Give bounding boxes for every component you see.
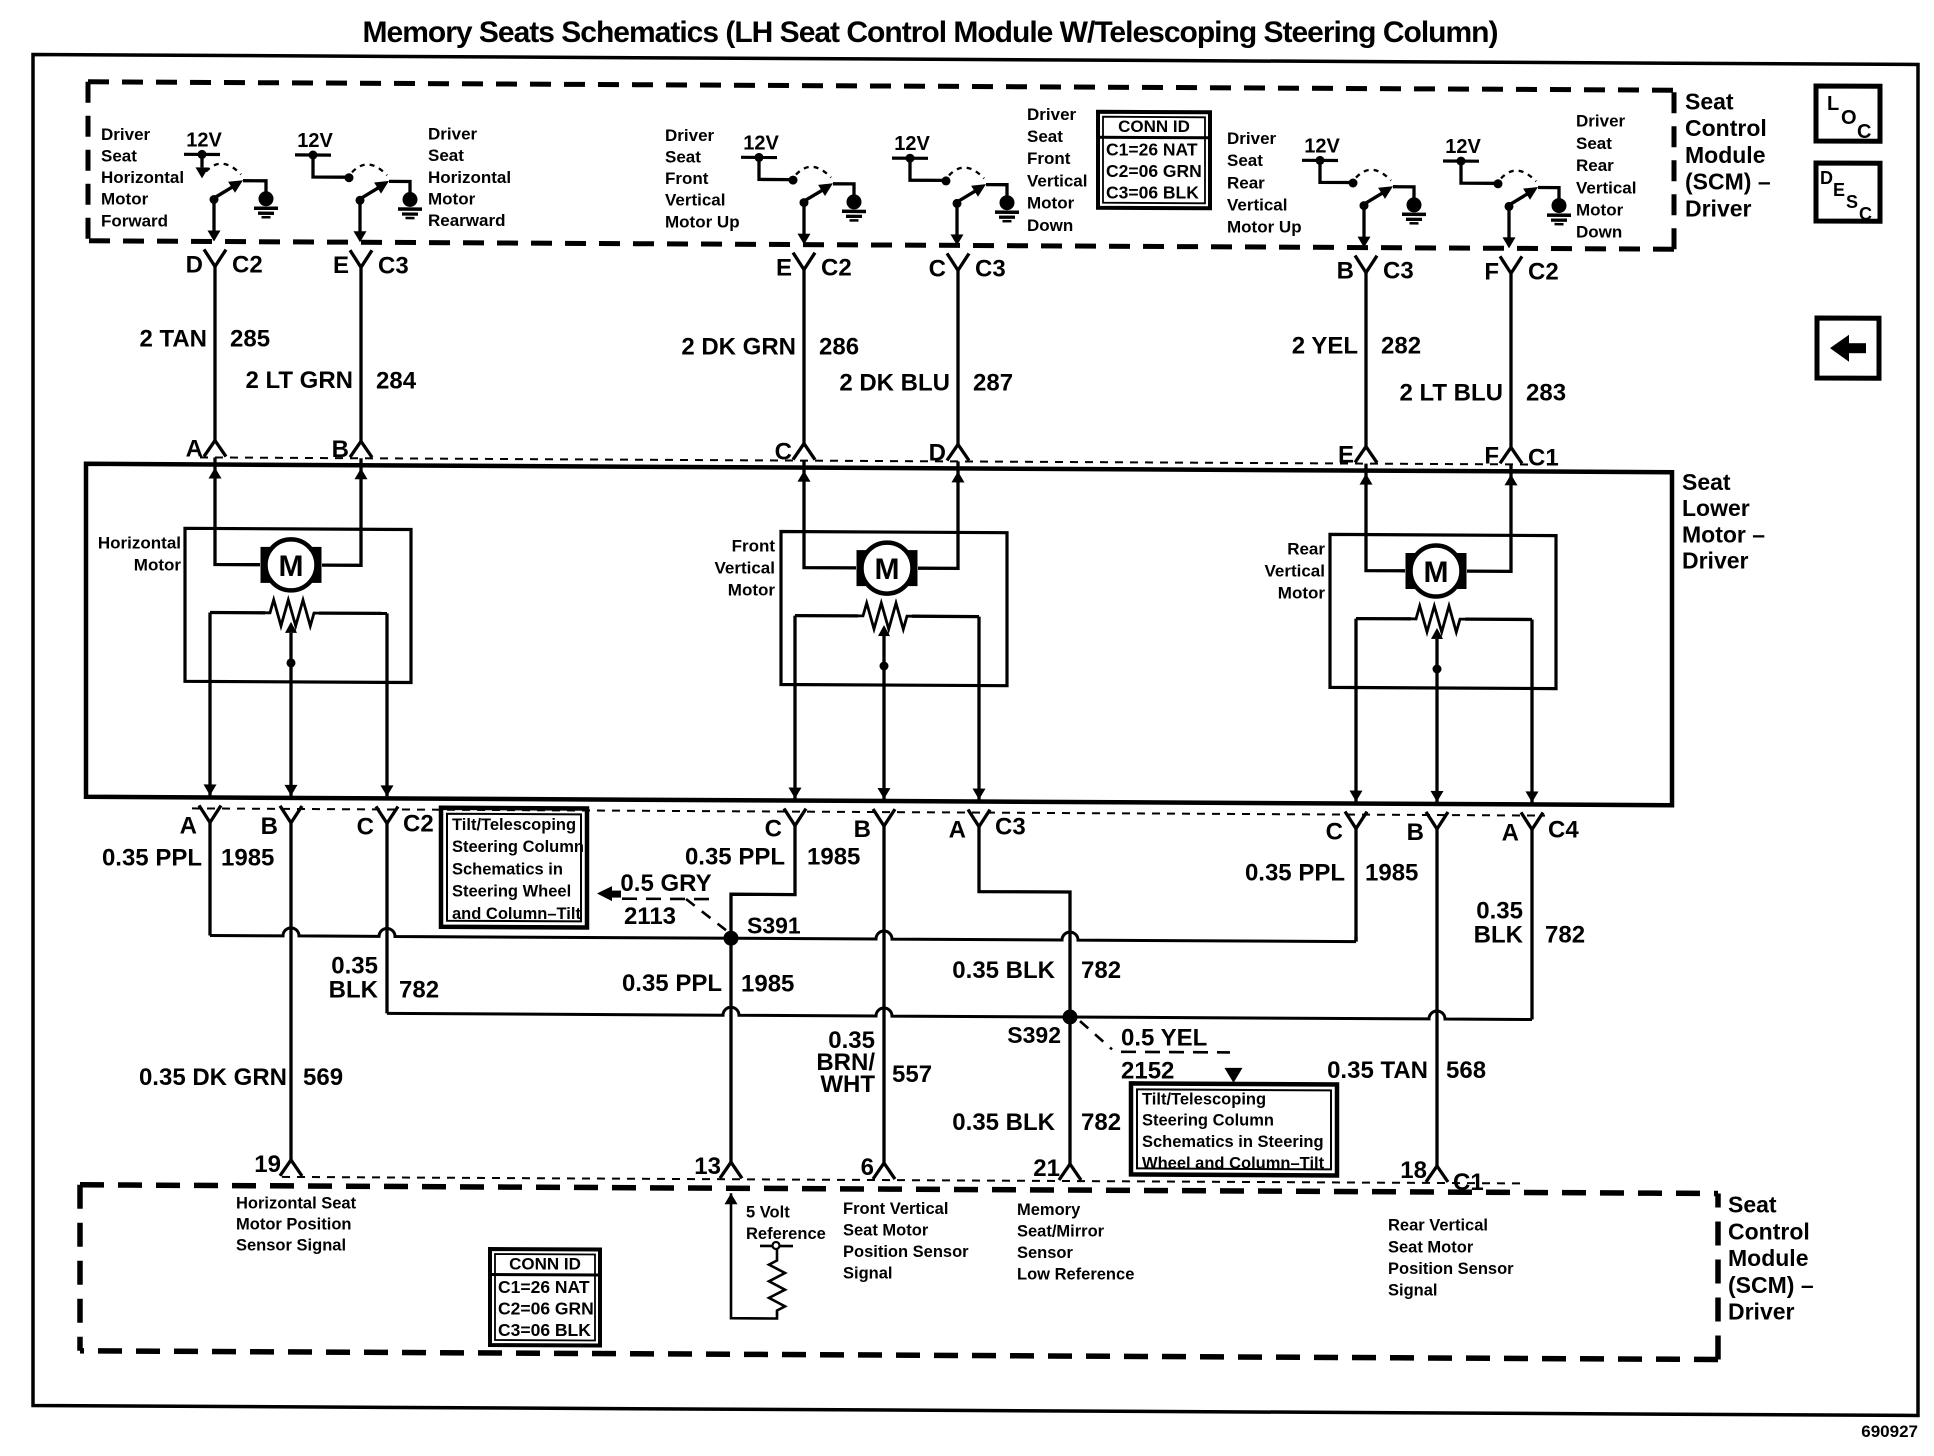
wire 569 0.35 DK GRN (pin B to pin 19) [289,821,292,1161]
svg-text:C: C [929,255,946,282]
svg-text:Driver: Driver [1685,196,1752,222]
svg-text:Position Sensor: Position Sensor [843,1243,969,1261]
svg-text:2152: 2152 [1121,1057,1174,1084]
svg-text:Driver: Driver [101,125,151,144]
svg-text:12V: 12V [186,129,222,151]
potentiometer position sensor (motor Front) [858,603,912,629]
svg-text:C: C [1857,121,1871,143]
switch blade (pivot x=214) [206,164,241,175]
ground (switch at x=957) [986,185,1007,196]
wire 1985 0.35 PPL (pin A to S391) [208,821,211,936]
wire 284 2 LT GRN [359,267,362,441]
svg-text:12V: 12V [1445,136,1481,158]
svg-text:12V: 12V [297,130,333,152]
wire sensor left lead (x=210) [208,613,211,796]
svg-text:285: 285 [230,326,270,353]
pin C (motor box bottom) [1345,812,1356,829]
switch blade (pivot x=360) [352,164,387,175]
svg-text:Front: Front [665,169,709,188]
svg-text:Driver: Driver [665,126,715,145]
wire sensor left lead (x=1356) [1354,619,1357,802]
svg-text:6: 6 [861,1154,874,1181]
svg-text:Motor: Motor [1278,583,1326,602]
svg-text:782: 782 [1081,957,1121,984]
svg-text:Rear: Rear [1287,539,1325,558]
svg-text:Position Sensor: Position Sensor [1388,1260,1514,1278]
reference wire 0.5 GRY 2113 (to steering column schematics) [597,886,612,901]
svg-text:C2=06 GRN: C2=06 GRN [498,1299,594,1319]
svg-text:S: S [1846,192,1858,212]
note box Tilt/Telescoping Steering Column Schematics (left) [441,808,587,928]
svg-text:C2: C2 [232,252,263,279]
ground (switch at x=1364) [1393,187,1414,198]
svg-text:Motor –: Motor – [1682,521,1765,547]
svg-text:0.5 GRY: 0.5 GRY [620,870,711,897]
wire 782 0.35 BLK (motor2 pin A to S392) [979,825,1070,1017]
svg-text:12V: 12V [1304,135,1340,157]
motor Rear Vertical Motor [1330,534,1556,688]
svg-text:Vertical: Vertical [1265,561,1326,580]
svg-text:E: E [1833,180,1845,200]
ground (switch at x=804) [833,184,854,195]
svg-text:F: F [1484,258,1499,285]
svg-text:Module: Module [1685,142,1766,168]
svg-text:Seat: Seat [1682,469,1731,495]
pin A connector C4 (motor box bottom) [1521,812,1532,829]
reference wire 0.5 YEL 2152 (to steering column schematics) [1080,1021,1112,1049]
svg-text:2113: 2113 [624,903,676,930]
svg-text:E: E [333,252,349,279]
navigation back-arrow box [1817,318,1879,378]
motor Front Vertical Motor [781,532,1007,686]
svg-text:C3=06 BLK: C3=06 BLK [498,1320,591,1340]
wire switch output (x=1509) [1507,206,1510,240]
wire motor feed left (x=1366) [1366,464,1405,571]
pin E connector C2 (SCM switch output) [793,253,804,270]
svg-text:2 LT BLU: 2 LT BLU [1399,379,1503,406]
svg-text:S392: S392 [1007,1022,1061,1048]
svg-text:782: 782 [1081,1109,1121,1136]
svg-text:782: 782 [1545,922,1585,949]
svg-text:282: 282 [1381,333,1421,360]
svg-text:0.35: 0.35 [1476,897,1523,924]
svg-text:Vertical: Vertical [665,191,726,210]
svg-text:Seat: Seat [428,146,464,165]
svg-text:Steering Wheel: Steering Wheel [452,883,571,901]
svg-text:Lower: Lower [1682,495,1750,521]
svg-text:Schematics in Steering: Schematics in Steering [1142,1133,1324,1151]
svg-text:Motor Up: Motor Up [665,212,740,231]
wire sensor right lead (x=1532) [1530,620,1533,803]
note box Tilt/Telescoping Steering Column Schematics (right) [1131,1083,1337,1175]
ground (switch at x=360) [389,181,410,192]
svg-text:E: E [776,255,792,282]
svg-text:Front: Front [1027,149,1071,168]
svg-text:1985: 1985 [221,845,274,872]
svg-text:Horizontal: Horizontal [428,168,511,187]
svg-text:and Column–Tilt: and Column–Tilt [452,905,581,923]
svg-text:C3: C3 [1383,258,1414,285]
svg-text:Seat: Seat [1685,88,1734,114]
svg-text:Seat/Mirror: Seat/Mirror [1017,1222,1105,1240]
DESC reference box [1816,163,1880,221]
svg-text:Control: Control [1685,115,1767,141]
pin B (motor box bottom) [1426,812,1437,829]
svg-text:B: B [854,816,871,843]
svg-text:0.35 PPL: 0.35 PPL [622,970,722,997]
motor Horizontal Motor [185,528,411,682]
CONN ID table (SCM bottom connectors) [490,1249,600,1346]
svg-text:(SCM) –: (SCM) – [1685,169,1771,195]
svg-text:C1=26 NAT: C1=26 NAT [1106,140,1198,160]
svg-text:Horizontal: Horizontal [98,533,181,552]
svg-text:B: B [1407,819,1424,846]
svg-text:Down: Down [1576,223,1622,242]
svg-text:C: C [357,813,374,840]
SCM box (Seat Control Module - Driver, bottom) [80,1185,1718,1194]
wire motor feed left (x=215) [215,458,260,565]
svg-text:Vertical: Vertical [1227,196,1288,215]
svg-text:284: 284 [376,367,417,394]
svg-text:Driver: Driver [1027,105,1077,124]
svg-text:Motor: Motor [728,581,776,600]
svg-text:Motor: Motor [101,190,149,209]
potentiometer position sensor (motor Rear) [1411,606,1465,632]
svg-text:2 LT GRN: 2 LT GRN [245,367,353,394]
wire 782 0.35 BLK (motor3 pin A to S392 line) [1530,828,1533,1020]
svg-text:2 DK BLU: 2 DK BLU [839,369,950,396]
svg-text:B: B [1337,258,1354,285]
svg-text:12V: 12V [743,132,779,154]
pin C (motor box bottom) [784,809,795,826]
svg-text:0.35 DK GRN: 0.35 DK GRN [139,1064,287,1091]
svg-text:A: A [949,817,966,844]
svg-text:0.35 PPL: 0.35 PPL [1245,860,1345,887]
svg-text:Vertical: Vertical [1576,178,1637,197]
svg-text:12V: 12V [894,133,930,155]
svg-text:0.35: 0.35 [331,952,378,979]
svg-text:Steering Column: Steering Column [452,838,584,856]
wire switch output (x=1364) [1362,206,1365,240]
svg-text:Motor: Motor [1576,201,1624,220]
svg-text:569: 569 [303,1064,343,1091]
svg-text:0.35 TAN: 0.35 TAN [1327,1057,1428,1084]
svg-text:283: 283 [1526,380,1566,407]
svg-text:Rear: Rear [1227,173,1265,192]
switch blade (pivot x=957) [949,168,984,179]
svg-text:Motor: Motor [1027,194,1075,213]
svg-text:Schematics in: Schematics in [452,860,563,878]
resistor 5 volt reference network [725,1193,738,1204]
svg-text:C2: C2 [1528,259,1559,286]
wire sensor left lead (x=795) [793,616,796,799]
svg-text:Driver: Driver [1576,112,1626,131]
wire sensor right lead (x=387) [385,613,388,796]
connector row (thin dashed, motor outputs) [192,808,1545,815]
svg-text:0.35 BLK: 0.35 BLK [952,1109,1055,1136]
svg-text:D: D [186,251,203,278]
svg-text:19: 19 [254,1151,281,1178]
wire 1985 0.35 PPL (S391 to pin 13) [729,938,732,1163]
svg-text:C1=26 NAT: C1=26 NAT [498,1277,590,1297]
connector row (thin dashed, SCM bottom) [282,1177,1520,1184]
svg-text:C1: C1 [1453,1169,1484,1196]
wire 782 0.35 BLK (pin C to S392 line) [385,821,388,1013]
wire 286 2 DK GRN [802,270,805,444]
switch blade (pivot x=1364) [1356,170,1391,181]
svg-text:Rear: Rear [1576,156,1614,175]
wire 1985 0.35 PPL (motor3 pin C to S391 line) [1354,827,1357,942]
svg-text:D: D [1820,168,1833,188]
svg-text:C3: C3 [995,814,1026,841]
pin B connector C3 (SCM switch output) [1355,256,1366,273]
wire switch output (x=957) [955,203,958,237]
svg-text:21: 21 [1033,1155,1060,1182]
pin E connector C3 (SCM switch output) [350,250,361,267]
svg-text:557: 557 [892,1061,932,1088]
svg-text:2 TAN: 2 TAN [139,326,207,353]
svg-text:Driver: Driver [1682,548,1749,574]
svg-text:B: B [261,813,278,840]
svg-text:286: 286 [819,334,859,361]
svg-text:Seat: Seat [1576,134,1612,153]
svg-text:Seat: Seat [1227,151,1263,170]
ground (switch at x=1509) [1538,188,1559,199]
wire 557 0.35 BRN/WHT (motor2 pin B to pin 6) [882,824,885,1164]
wire 285 2 TAN [213,267,216,441]
pin C connector C3 (SCM switch output) [947,253,958,270]
svg-text:Wheel and Column–Tilt: Wheel and Column–Tilt [1142,1154,1325,1172]
svg-text:Horizontal: Horizontal [101,168,184,187]
wire motor feed right (x=1511) [1467,464,1511,571]
svg-text:Low Reference: Low Reference [1017,1266,1134,1284]
pin A connector C3 (motor box bottom) [968,810,979,827]
svg-text:Memory Seats Schematics (LH Se: Memory Seats Schematics (LH Seat Control… [363,16,1498,49]
svg-text:Signal: Signal [843,1265,893,1283]
wire motor feed right (x=361) [322,458,361,565]
svg-text:O: O [1841,107,1857,129]
svg-text:0.35 PPL: 0.35 PPL [685,844,785,871]
svg-text:Vertical: Vertical [1027,171,1088,190]
svg-text:Sensor: Sensor [1017,1244,1074,1262]
svg-text:C2=06 GRN: C2=06 GRN [1106,161,1202,181]
svg-text:0.35 BLK: 0.35 BLK [952,957,1055,984]
svg-text:Memory: Memory [1017,1201,1081,1219]
wire 287 2 DK BLU [956,270,959,444]
svg-text:(SCM) –: (SCM) – [1728,1272,1814,1298]
wire motor feed right (x=958) [918,461,958,568]
svg-text:L: L [1827,93,1839,115]
svg-text:Motor: Motor [134,555,182,574]
CONN ID table (switch connectors) [1098,112,1210,209]
svg-text:A: A [1502,819,1519,846]
svg-text:B: B [332,436,349,463]
svg-text:C3: C3 [975,256,1006,283]
svg-text:C: C [1326,819,1343,846]
svg-text:0.35 PPL: 0.35 PPL [102,844,202,871]
wire 283 2 LT BLU [1509,273,1512,447]
svg-text:690927: 690927 [1861,1422,1918,1441]
svg-text:C: C [1859,204,1872,224]
wire 1985 0.35 PPL (motor2 pin C to S391) [731,824,795,939]
splice S391 [724,931,739,946]
svg-text:M: M [1424,556,1449,589]
svg-text:Rear Vertical: Rear Vertical [1388,1217,1488,1235]
svg-text:1985: 1985 [741,970,794,997]
svg-text:Seat Motor: Seat Motor [1388,1238,1474,1256]
svg-text:Front: Front [732,537,776,556]
svg-text:Sensor Signal: Sensor Signal [236,1237,346,1255]
svg-text:Driver: Driver [428,125,478,144]
ground (switch at x=214) [243,181,266,192]
svg-text:CONN ID: CONN ID [509,1254,581,1273]
svg-text:Tilt/Telescoping: Tilt/Telescoping [1142,1090,1266,1108]
svg-text:287: 287 [973,370,1013,397]
wire motor feed left (x=804) [804,461,856,568]
svg-text:Horizontal Seat: Horizontal Seat [236,1195,357,1213]
svg-text:Reference: Reference [746,1225,826,1243]
wire 568 0.35 TAN (motor3 pin B to pin 18) [1435,827,1438,1167]
SCM switch assembly box (Seat Control Module - Driver, top) [88,82,1674,90]
connector row (thin dashed, SCM to motor harness) [200,457,1535,464]
svg-text:Forward: Forward [101,211,168,230]
svg-text:C3=06 BLK: C3=06 BLK [1106,183,1199,203]
svg-text:2 DK GRN: 2 DK GRN [681,334,796,361]
svg-text:13: 13 [694,1153,721,1180]
pin A (motor box bottom) [199,805,210,822]
svg-text:M: M [875,553,900,586]
svg-text:18: 18 [1400,1157,1427,1184]
svg-text:CONN ID: CONN ID [1118,117,1190,136]
svg-text:Seat: Seat [665,148,701,167]
svg-text:1985: 1985 [807,844,860,871]
wire switch output (x=214) [212,200,215,234]
pin F connector C2 (SCM switch output) [1500,256,1511,273]
svg-text:C3: C3 [378,252,409,279]
svg-text:Driver: Driver [1227,129,1277,148]
LOC reference box [1816,86,1880,141]
svg-text:Motor: Motor [428,189,476,208]
pin B (motor box bottom) [873,809,884,826]
svg-text:1985: 1985 [1365,860,1418,887]
svg-text:C: C [775,439,792,466]
svg-text:Tilt/Telescoping: Tilt/Telescoping [452,816,576,834]
switch blade (pivot x=1509) [1501,171,1536,182]
svg-text:0.5 YEL: 0.5 YEL [1121,1024,1207,1051]
svg-text:A: A [180,812,197,839]
wire S391 bus 0.35 PPL 1985 (horizontal) [210,928,1356,942]
svg-text:Front Vertical: Front Vertical [843,1200,948,1218]
wire switch output (x=804) [802,203,805,237]
svg-text:Vertical: Vertical [715,559,776,578]
wire 782 0.35 BLK (S392 to pin 21) [1068,1017,1071,1165]
switch blade (pivot x=804) [796,167,831,178]
svg-text:C4: C4 [1548,817,1579,844]
svg-text:Seat: Seat [101,147,137,166]
svg-text:Module: Module [1728,1245,1809,1271]
svg-text:WHT: WHT [820,1071,875,1098]
svg-text:Seat: Seat [1728,1192,1777,1218]
svg-text:Rearward: Rearward [428,211,505,230]
svg-text:Control: Control [1728,1218,1810,1244]
wire 282 2 YEL [1364,273,1367,447]
Seat Lower Motor - Driver box [86,464,1672,805]
svg-text:Steering Column: Steering Column [1142,1112,1274,1130]
svg-text:Signal: Signal [1388,1282,1438,1300]
wire sensor right lead (x=979) [977,617,980,800]
potentiometer position sensor (motor Horizontal) [265,600,319,626]
svg-text:M: M [279,550,304,583]
pin D connector C2 (SCM switch output) [204,249,215,266]
svg-text:C2: C2 [403,811,434,838]
svg-text:5 Volt: 5 Volt [746,1203,790,1221]
svg-text:782: 782 [399,977,439,1004]
wire S392 bus 0.35 BLK 782 (horizontal) [387,1007,1532,1019]
svg-text:Driver: Driver [1728,1299,1795,1325]
svg-text:Seat: Seat [1027,127,1063,146]
wire switch output (x=360) [358,200,361,234]
svg-text:C: C [765,816,782,843]
svg-text:D: D [929,439,946,466]
splice S392 [1063,1010,1078,1025]
svg-text:BLK: BLK [329,976,379,1003]
pin B (motor box bottom) [280,806,291,823]
svg-text:C1: C1 [1528,445,1559,472]
svg-text:568: 568 [1446,1057,1486,1084]
pin C connector C2 (motor box bottom) [376,806,387,823]
svg-text:Motor Position: Motor Position [236,1216,351,1234]
svg-text:Motor Up: Motor Up [1227,218,1302,237]
svg-text:Seat Motor: Seat Motor [843,1221,929,1239]
svg-text:BLK: BLK [1474,921,1524,948]
svg-text:S391: S391 [747,912,801,938]
svg-text:Down: Down [1027,216,1073,235]
svg-text:2 YEL: 2 YEL [1292,333,1358,360]
svg-text:C2: C2 [821,255,852,282]
